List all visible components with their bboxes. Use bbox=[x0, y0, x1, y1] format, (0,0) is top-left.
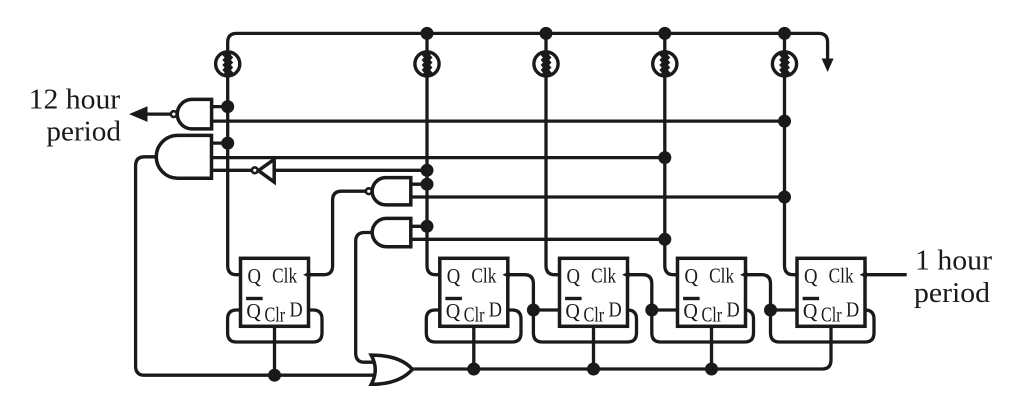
svg-text:Q: Q bbox=[803, 299, 818, 323]
svg-text:Q: Q bbox=[446, 299, 461, 323]
power arrow (top right) bbox=[822, 59, 834, 73]
svg-text:Q: Q bbox=[246, 299, 261, 323]
svg-text:Clr: Clr bbox=[464, 303, 485, 327]
lamp L5 bbox=[772, 52, 796, 76]
nand gate U4 bbox=[366, 178, 411, 205]
svg-text:Q: Q bbox=[567, 264, 581, 288]
lamp L2 bbox=[415, 52, 439, 76]
wire NAND2 top input (to lamp2 net) bbox=[411, 183, 427, 186]
and gate U2 (reset detect, 3-input) bbox=[156, 135, 211, 178]
or gate U6 (clear) bbox=[371, 355, 412, 384]
node dots Qbar nets bbox=[527, 304, 540, 317]
wire AND1 middle input (long, to lamp4 net) bbox=[212, 156, 665, 159]
svg-text:D: D bbox=[290, 298, 303, 322]
wire FF5 Qbar up to FF4 Clk bbox=[746, 275, 770, 310]
flip-flop FF4 bbox=[678, 258, 748, 326]
node dots on lamp5 net bbox=[778, 115, 791, 128]
lamp L4 bbox=[653, 52, 677, 76]
svg-text:Clk: Clk bbox=[471, 264, 496, 288]
node dots on lamp1 net bbox=[221, 100, 234, 113]
node dots on lamp4 net bbox=[658, 151, 671, 164]
lamp L3 bbox=[534, 52, 558, 76]
inverter U3 bbox=[252, 159, 274, 182]
svg-text:12 hour: 12 hour bbox=[29, 85, 121, 116]
wire AND1 top input bbox=[212, 141, 228, 144]
wire 1 hour period input to FF5 Clk bbox=[866, 273, 907, 276]
node junction dots: top bus bbox=[421, 27, 434, 40]
svg-text:D: D bbox=[489, 298, 502, 322]
nand gate U1 (12 hour detect) bbox=[171, 99, 212, 128]
wire FF3 Clr to clear bus bbox=[592, 326, 595, 369]
wire OR output clear bus to FF5 Clr bbox=[412, 326, 831, 369]
svg-text:period: period bbox=[914, 278, 990, 309]
svg-text:Clk: Clk bbox=[709, 264, 734, 288]
wire lamp2 vertical to FF2 Q bbox=[427, 33, 440, 274]
node dots clear bus bbox=[268, 369, 281, 382]
wire AND2 output down to OR top input bbox=[356, 233, 379, 363]
wire FF4 Qbar node and loop to D bbox=[652, 310, 754, 342]
wire lamp5 vertical to FF5 Q bbox=[785, 33, 798, 274]
wire lamp3 vertical to FF3 Q bbox=[546, 33, 560, 274]
svg-text:Q: Q bbox=[565, 299, 580, 323]
wire NAND1 bottom input (long, to lamp5 net) bbox=[212, 119, 785, 122]
svg-text:D: D bbox=[846, 298, 859, 322]
flip-flop FF3 bbox=[560, 258, 630, 326]
svg-text:Clk: Clk bbox=[829, 264, 854, 288]
wire AND2 top input (to lamp2 net) bbox=[411, 225, 427, 228]
svg-text:Q: Q bbox=[447, 264, 461, 288]
svg-text:Q: Q bbox=[248, 264, 262, 288]
svg-text:period: period bbox=[46, 117, 121, 148]
lamp L1 bbox=[216, 52, 240, 76]
wire FF4 Qbar up to FF3 Clk bbox=[628, 275, 652, 310]
wire lamp1 vertical to FF1 Q bbox=[228, 51, 241, 275]
wire FF3 Qbar node and loop to D bbox=[533, 310, 636, 342]
flip-flop FF5 bbox=[797, 258, 867, 326]
svg-text:Clr: Clr bbox=[702, 303, 723, 327]
wire FF2 Qbar-to-D loop bbox=[426, 310, 521, 342]
wire inverter input (to lamp2 net) bbox=[274, 169, 427, 172]
wire FF1 Qbar-to-D loop bbox=[228, 310, 322, 342]
wire NAND1 top input bbox=[212, 105, 228, 108]
wire FF3 Qbar up to FF2 Clk bbox=[509, 275, 534, 310]
wire FF4 Clr to clear bus bbox=[710, 326, 713, 369]
svg-text:Clk: Clk bbox=[591, 264, 616, 288]
wire FF2 Clr to clear bus bbox=[472, 326, 475, 369]
wire AND1 output down left side to clear bus bbox=[136, 157, 378, 375]
svg-text:Q: Q bbox=[804, 264, 818, 288]
svg-text:D: D bbox=[727, 298, 740, 322]
svg-text:Q: Q bbox=[683, 299, 698, 323]
node dots on lamp2 net bbox=[421, 164, 434, 177]
svg-text:Clr: Clr bbox=[265, 303, 286, 327]
svg-text:1 hour: 1 hour bbox=[915, 246, 993, 277]
svg-text:D: D bbox=[609, 298, 622, 322]
svg-text:Q: Q bbox=[685, 264, 699, 288]
flip-flop FF1 bbox=[241, 258, 311, 326]
arrow 12 hour period output bbox=[129, 106, 148, 122]
wire NAND2 output down to FF1 Clk bbox=[310, 191, 365, 275]
wire lamp4 vertical to FF4 Q bbox=[665, 33, 678, 274]
svg-text:Clr: Clr bbox=[584, 303, 605, 327]
wire NAND2 bottom input (long, to lamp5 net) bbox=[411, 195, 785, 198]
wire FF5 Qbar node and loop to D bbox=[771, 310, 875, 342]
and gate U5 bbox=[372, 218, 411, 246]
wire AND2 bottom input (long, to lamp4 net) bbox=[411, 238, 665, 241]
wire FF1 Clr to clear bus bbox=[273, 326, 276, 375]
wire top supply bus bbox=[228, 33, 828, 59]
svg-text:Clk: Clk bbox=[272, 264, 297, 288]
wire NAND1 output to 12-hour arrow bbox=[147, 112, 171, 115]
svg-text:Clr: Clr bbox=[821, 303, 842, 327]
wire AND1 bottom input to inverter output bbox=[212, 169, 252, 172]
flip-flop FF2 bbox=[440, 258, 510, 326]
